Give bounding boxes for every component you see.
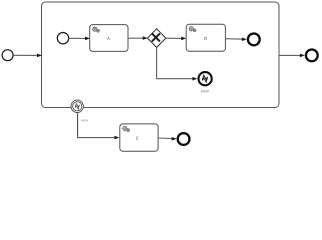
task C xyxy=(120,124,158,151)
boundary error event B1 xyxy=(71,100,88,121)
wire: G1 to task D xyxy=(166,37,186,41)
start event S2 (inner) xyxy=(57,33,68,44)
subprocess frame xyxy=(42,2,280,108)
task A xyxy=(90,25,128,52)
gear marker of task D xyxy=(189,26,197,32)
gear marker of task C xyxy=(122,126,130,132)
wire: B1 to task C xyxy=(78,113,120,140)
wire: task A to gateway G1 xyxy=(128,36,148,40)
wire: G1 down to error end event E2 xyxy=(157,47,198,80)
gear marker of task A xyxy=(92,26,100,32)
wire: task D to end event E1 xyxy=(225,38,246,42)
wire: task C to end event E4 xyxy=(158,137,177,141)
wire: S1 to subprocess xyxy=(13,54,42,58)
end event E4 xyxy=(178,133,190,145)
end event E1 xyxy=(248,34,260,46)
gateway G1 (exclusive) xyxy=(147,29,166,48)
end event E3 xyxy=(306,50,318,62)
wire: subprocess to end event E3 xyxy=(279,54,305,58)
task D xyxy=(186,24,225,51)
error end event E2 xyxy=(199,72,212,92)
wire: S2 to task A xyxy=(69,37,90,41)
start event S1 (outer) xyxy=(2,50,13,61)
